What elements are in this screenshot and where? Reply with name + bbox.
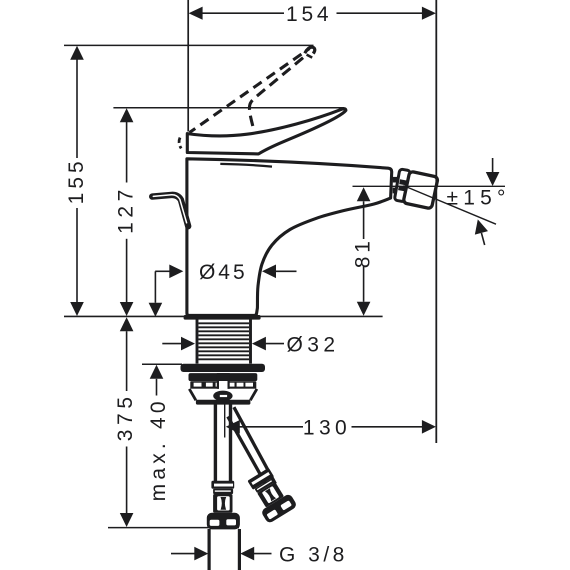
spout seam line [220,164,272,167]
svg-text:Ø45: Ø45 [199,261,248,284]
lever raised position: dashed top edge [190,49,310,133]
extension line bottom for 375 [108,527,239,529]
svg-text:±15°: ±15° [447,187,511,210]
aerator connector tabs [393,177,400,183]
svg-text:max. 40: max. 40 [147,397,170,501]
dimension 81 [352,187,375,315]
angled supply hose [228,417,267,486]
dimension 130 [225,404,436,440]
dimension 155 [65,46,88,316]
svg-text:127: 127 [115,185,138,234]
tailpipe G3/8 [208,529,211,570]
svg-text:154: 154 [286,3,332,26]
dimension diameter 45 [155,261,296,284]
svg-text:155: 155 [65,157,88,204]
dimension 375 [114,317,137,527]
angle dimension plus/minus 15 deg [353,158,511,247]
dashed lever tip hook [305,47,315,53]
svg-text:81: 81 [352,237,375,268]
aerator pivot ring [394,169,410,202]
faucet body with spout [187,159,392,316]
threaded shank [197,318,251,364]
svg-text:375: 375 [114,392,137,441]
body base bar [184,315,261,320]
dimension G 3/8 [171,544,348,567]
svg-text:130: 130 [303,417,351,440]
lever handle (rest position) [187,109,346,154]
angled hose fitting [243,465,297,524]
dimension 127 [115,108,138,316]
svg-text:Ø32: Ø32 [287,334,340,357]
vertical supply hose [214,405,217,482]
vertical hose fitting [207,481,240,530]
pop-up rod hook at rear [152,195,188,226]
aerator spray head [403,171,438,209]
dashed lever rear arc [179,138,181,149]
extension line for 127 [113,107,344,109]
deck line (mounting surface) [64,315,383,317]
dimension max. 40 [142,271,182,501]
flange washer [181,364,266,372]
dimension 154 [189,3,436,26]
dimension diameter 32 [162,334,339,357]
extension line right of 154 [435,0,437,443]
extension line left of 154 [187,0,189,132]
mounting nut [189,373,258,405]
extension line top for 155 [64,44,314,46]
svg-text:G 3/8: G 3/8 [279,544,348,567]
lever raised position: dashed underside and front edge [249,56,305,126]
